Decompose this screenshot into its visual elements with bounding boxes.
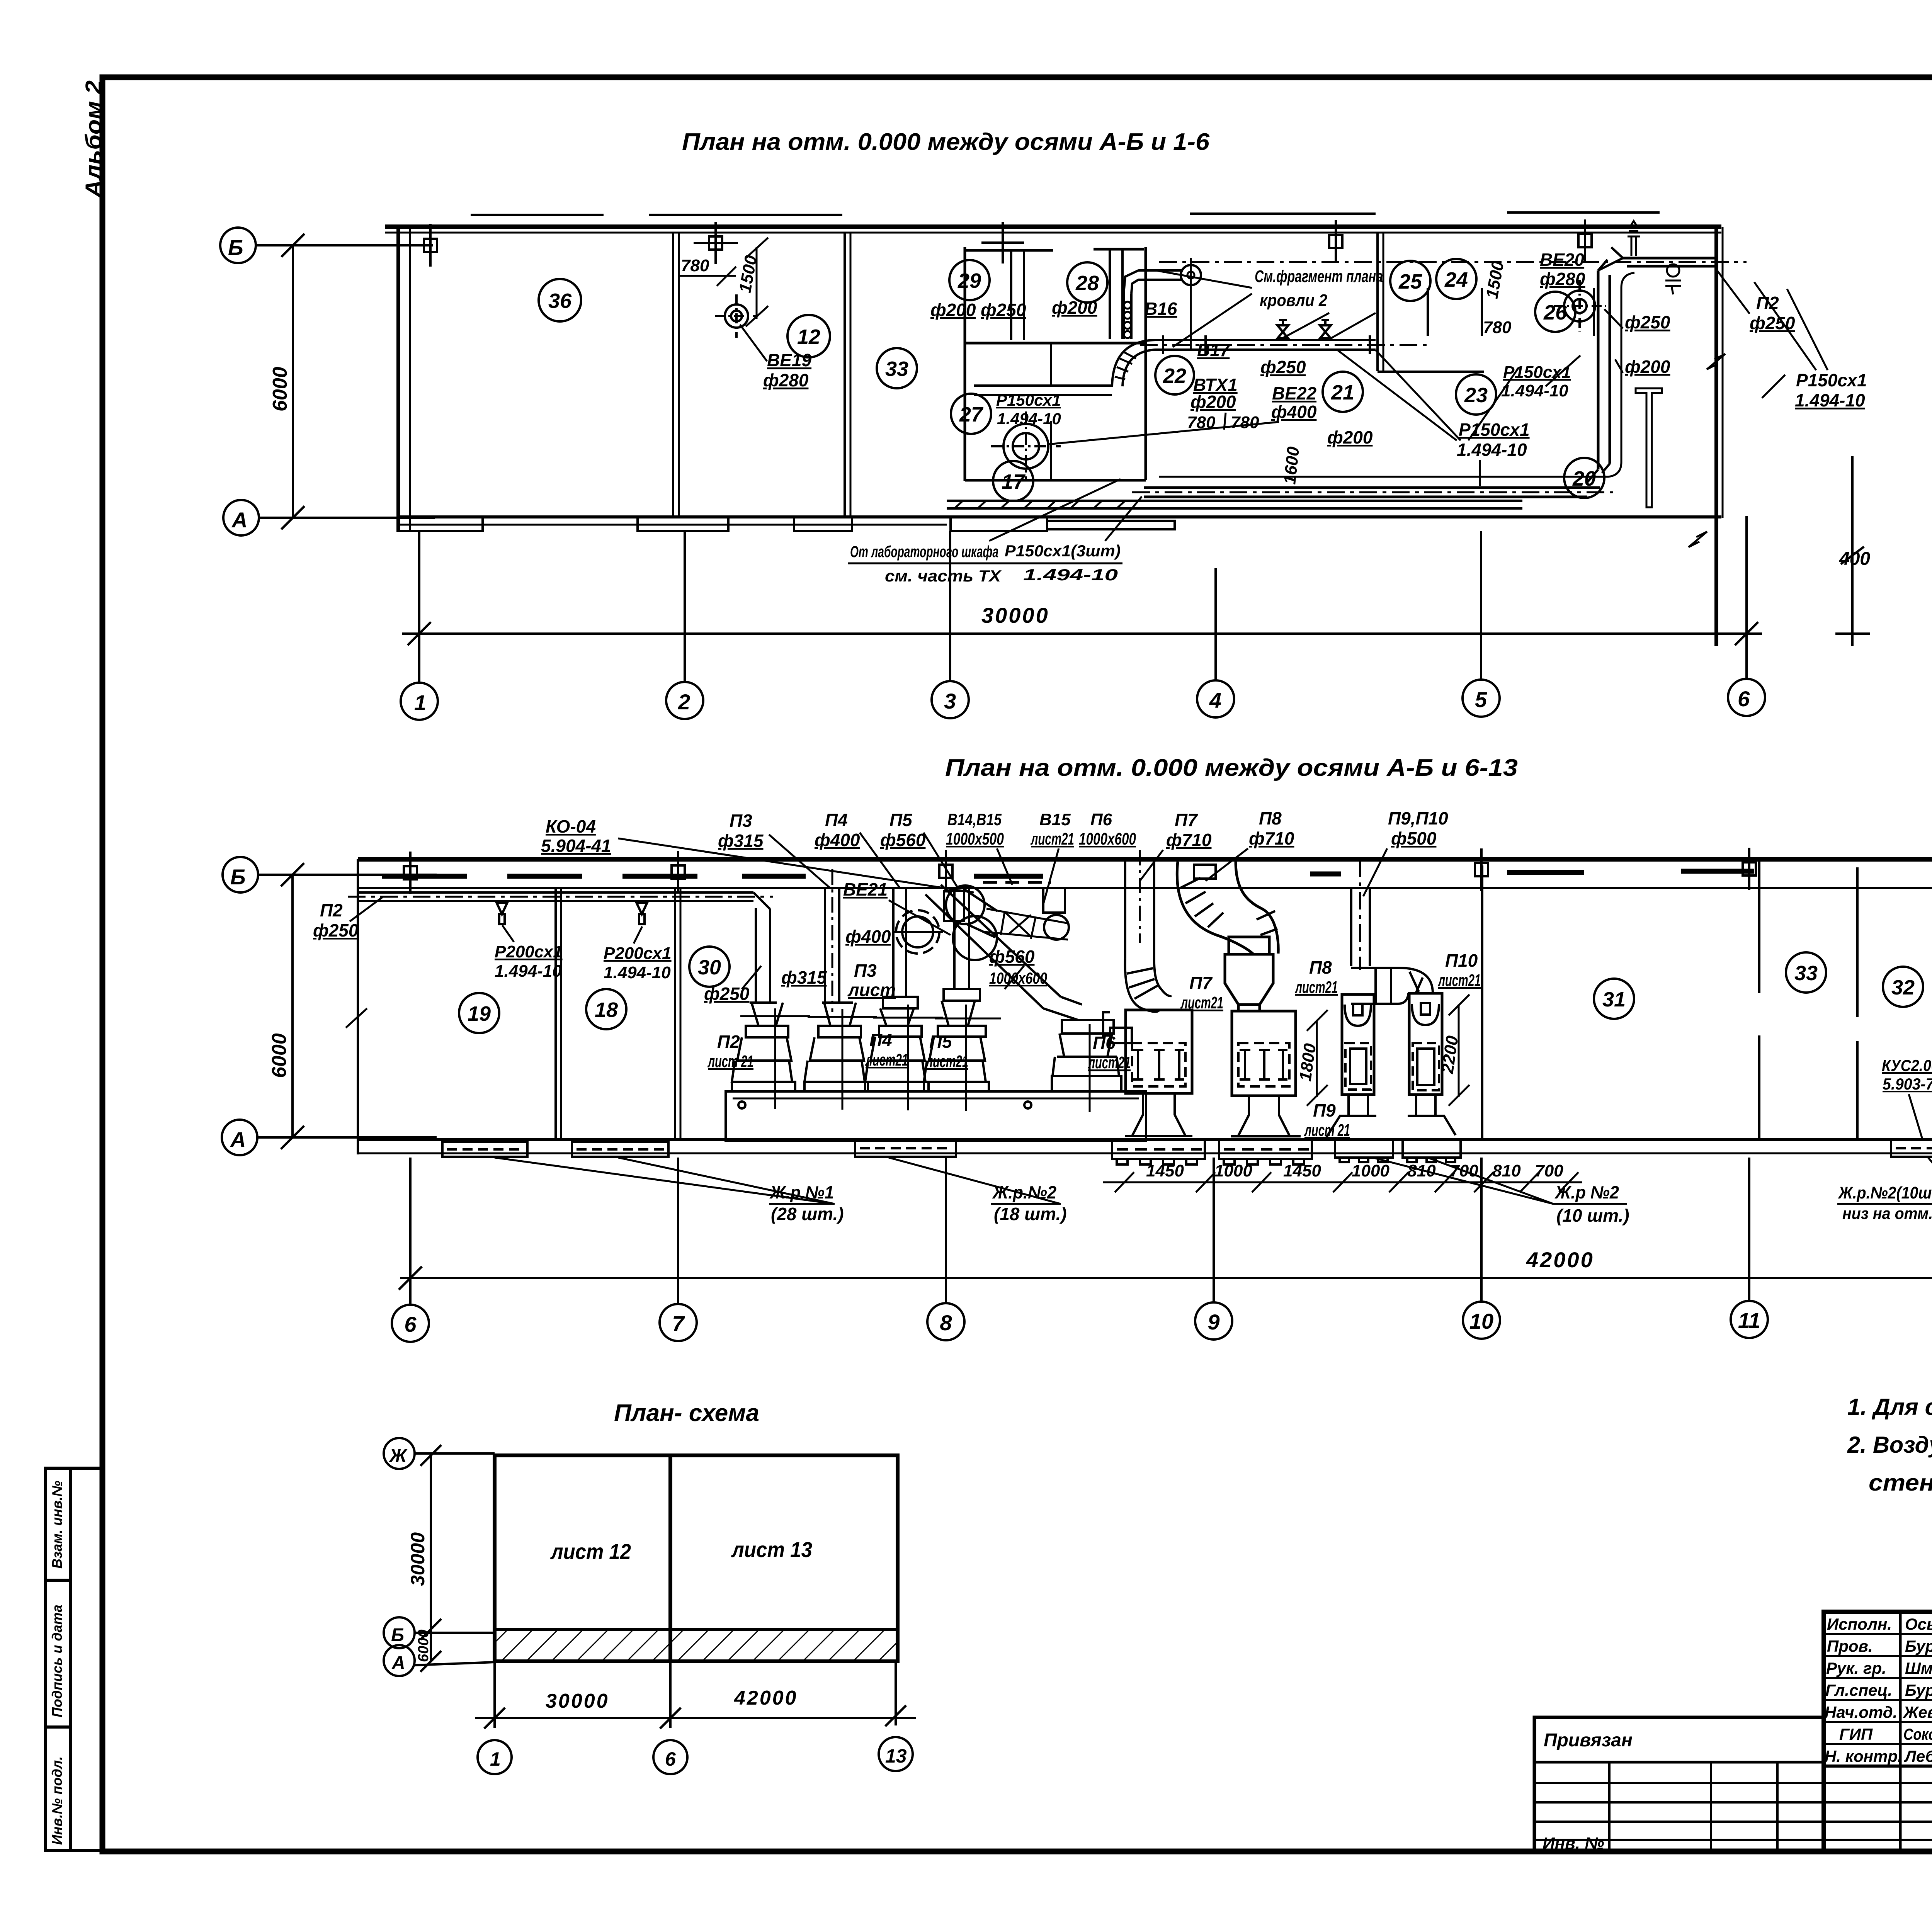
svg-text:Б: Б xyxy=(228,235,243,260)
svg-text:П6: П6 xyxy=(1093,1033,1116,1053)
P9 tower xyxy=(1342,994,1374,1095)
svg-text:П5: П5 xyxy=(929,1032,952,1052)
svg-text:стен здания.: стен здания. xyxy=(1869,1470,1932,1496)
plan1 left wall xyxy=(396,227,400,530)
svg-text:810: 810 xyxy=(1492,1161,1521,1180)
svg-text:1000х500: 1000х500 xyxy=(946,830,1004,848)
P7 box xyxy=(1126,1010,1192,1093)
svg-text:лист 21: лист 21 xyxy=(707,1052,753,1071)
svg-text:КО-04: КО-04 xyxy=(546,816,596,836)
svg-text:5: 5 xyxy=(1475,687,1487,712)
plan-schema hatched band xyxy=(497,1631,896,1660)
svg-text:ф280: ф280 xyxy=(763,370,809,390)
plan2 dim line 42000 xyxy=(399,1158,1932,1305)
svg-text:ГИП: ГИП xyxy=(1839,1725,1873,1743)
svg-text:1450: 1450 xyxy=(1283,1161,1321,1180)
svg-text:ф250: ф250 xyxy=(313,920,359,940)
svg-text:6: 6 xyxy=(1738,687,1750,711)
grid bubble А plan1 xyxy=(223,500,259,535)
grid bubble Б plan1 xyxy=(220,228,256,263)
svg-text:1.494-10: 1.494-10 xyxy=(1457,440,1527,460)
column marks plan2 top wall xyxy=(404,846,1932,894)
plan2 bottom wall xyxy=(358,1138,1932,1141)
P10 tower xyxy=(1409,993,1442,1095)
svg-text:ВЕ21: ВЕ21 xyxy=(843,879,888,899)
svg-text:ВЕ22: ВЕ22 xyxy=(1272,383,1316,403)
svg-text:6000: 6000 xyxy=(269,367,291,411)
svg-text:Альбом 2: Альбом 2 xyxy=(81,80,106,199)
svg-text:Взам. инв.№: Взам. инв.№ xyxy=(49,1481,65,1569)
svg-text:ф200: ф200 xyxy=(1327,427,1373,447)
axis lines plan2 xyxy=(258,874,437,876)
svg-text:П4: П4 xyxy=(869,1030,892,1050)
svg-text:5.903-7, 6.1: 5.903-7, 6.1 xyxy=(1883,1075,1932,1093)
svg-text:Оськина: Оськина xyxy=(1905,1615,1932,1633)
plan1 right wall xyxy=(1714,227,1718,646)
svg-text:Ж.р №2: Ж.р №2 xyxy=(1554,1182,1619,1202)
svg-text:1.494-10: 1.494-10 xyxy=(604,963,671,982)
svg-text:Бурцев: Бурцев xyxy=(1905,1637,1932,1655)
svg-text:ф200: ф200 xyxy=(1190,392,1236,412)
svg-text:780: 780 xyxy=(1231,413,1259,432)
svg-text:В14,В15: В14,В15 xyxy=(947,810,1002,829)
svg-text:П7: П7 xyxy=(1175,810,1198,830)
dim 2200 xyxy=(1449,994,1469,1106)
svg-text:11: 11 xyxy=(1738,1308,1760,1333)
svg-text:25: 25 xyxy=(1398,270,1422,293)
svg-text:Жевнеров: Жевнеров xyxy=(1903,1703,1932,1721)
svg-text:лист21: лист21 xyxy=(1295,978,1338,997)
svg-text:7: 7 xyxy=(672,1311,685,1336)
svg-text:21: 21 xyxy=(1331,381,1354,404)
svg-text:4: 4 xyxy=(1209,688,1221,712)
svg-text:От лабораторного шкафа: От лабораторного шкафа xyxy=(850,542,998,561)
svg-text:КУС2.00.00-М: КУС2.00.00-М xyxy=(1882,1056,1932,1074)
foundation pads with scallops xyxy=(1112,1140,1461,1164)
svg-text:Р150сх1: Р150сх1 xyxy=(996,391,1061,409)
svg-text:П9: П9 xyxy=(1313,1100,1336,1120)
svg-text:780: 780 xyxy=(681,256,709,275)
svg-text:Ж.р.№2(10шт.): Ж.р.№2(10шт.) xyxy=(1838,1183,1932,1202)
funnel feet under boxes xyxy=(1125,1093,1456,1137)
fan group BE21 xyxy=(893,882,1069,960)
svg-text:30000: 30000 xyxy=(546,1690,609,1712)
svg-text:Р150сх1: Р150сх1 xyxy=(1796,370,1867,390)
plan1 top wall xyxy=(385,224,1721,229)
svg-text:ф560: ф560 xyxy=(989,947,1035,967)
svg-text:6: 6 xyxy=(404,1312,417,1336)
plan1 dimension line 30000 xyxy=(402,456,1870,683)
Zh.r.1 grilles in bottom wall xyxy=(442,1140,1932,1157)
svg-text:лист21: лист21 xyxy=(925,1052,968,1071)
svg-text:Б: Б xyxy=(391,1625,404,1646)
svg-text:План- схема: План- схема xyxy=(614,1400,759,1426)
bell unit P2 xyxy=(732,1003,795,1091)
svg-text:низ на отм. 1.8: низ на отм. 1.8 xyxy=(1842,1204,1932,1222)
svg-text:Инв. №: Инв. № xyxy=(1543,1834,1604,1853)
svg-text:ф400: ф400 xyxy=(845,926,891,947)
B16 duct elbow and flex xyxy=(1124,258,1201,350)
svg-text:лист21: лист21 xyxy=(865,1051,908,1069)
svg-text:ф200: ф200 xyxy=(930,300,976,320)
svg-text:(28 шт.): (28 шт.) xyxy=(771,1204,844,1224)
svg-text:6000: 6000 xyxy=(268,1033,291,1078)
duct right vertical f250 xyxy=(1597,270,1600,469)
svg-text:13: 13 xyxy=(885,1745,907,1767)
valve symbols on P2 duct xyxy=(497,903,507,924)
bells platform plan2 xyxy=(726,1091,1146,1141)
svg-text:6000: 6000 xyxy=(415,1629,432,1662)
svg-text:ф200: ф200 xyxy=(1625,357,1670,377)
duct P2 f250 plan2 xyxy=(358,891,753,894)
svg-text:27: 27 xyxy=(959,403,984,426)
svg-text:лист21: лист21 xyxy=(1088,1053,1131,1072)
svg-text:30000: 30000 xyxy=(981,603,1049,627)
svg-text:33: 33 xyxy=(885,357,908,381)
svg-text:18: 18 xyxy=(595,998,618,1022)
left stamp column boxes xyxy=(46,1468,103,1851)
svg-text:1.494-10: 1.494-10 xyxy=(1023,566,1118,584)
P8 box xyxy=(1232,1011,1296,1096)
grid bubble Б plan2 xyxy=(223,857,258,892)
svg-text:1.494-10: 1.494-10 xyxy=(495,962,562,981)
svg-text:1450: 1450 xyxy=(1146,1161,1184,1180)
svg-text:24: 24 xyxy=(1444,268,1468,291)
svg-text:Шматкова: Шматкова xyxy=(1905,1659,1932,1677)
svg-text:Привязан: Привязан xyxy=(1544,1730,1633,1751)
svg-text:План на отм. 0.000 между осями: План на отм. 0.000 между осями А-Б и 1-6 xyxy=(682,129,1210,155)
svg-text:1.494-10: 1.494-10 xyxy=(1795,390,1865,410)
svg-text:Пров.: Пров. xyxy=(1827,1637,1873,1655)
svg-text:ф500: ф500 xyxy=(1391,828,1437,848)
svg-text:П2: П2 xyxy=(717,1032,740,1052)
schema bottom dim xyxy=(475,1661,916,1729)
P7 round riser xyxy=(1103,850,1172,1043)
svg-text:П8: П8 xyxy=(1259,808,1282,828)
dim 780 at axis2 xyxy=(679,238,768,326)
T column room20 xyxy=(1636,388,1662,507)
svg-text:ф250: ф250 xyxy=(981,300,1026,320)
svg-text:8: 8 xyxy=(940,1311,952,1335)
svg-text:Нач.отд.: Нач.отд. xyxy=(1825,1703,1897,1721)
plan1 room block walls xyxy=(965,249,1053,252)
svg-text:1000х600: 1000х600 xyxy=(1079,830,1136,848)
duct f250 horizontal room21 xyxy=(1155,339,1376,341)
svg-text:42000: 42000 xyxy=(1526,1248,1594,1272)
svg-text:П8: П8 xyxy=(1309,957,1332,977)
svg-text:5.904-41: 5.904-41 xyxy=(541,836,611,856)
svg-text:33: 33 xyxy=(1794,962,1818,985)
fan BE20 xyxy=(1554,280,1606,332)
svg-text:6: 6 xyxy=(665,1748,676,1770)
duct B17 horizontal xyxy=(974,384,1113,387)
staff labels xyxy=(1825,1615,1932,1765)
plan1 ducts xyxy=(471,212,1747,547)
P5 vertical duct xyxy=(953,888,956,989)
svg-text:см. часть ТХ: см. часть ТХ xyxy=(885,567,1002,585)
svg-text:лист21: лист21 xyxy=(1031,830,1074,848)
svg-text:Р200сх1: Р200сх1 xyxy=(495,942,563,961)
svg-text:Р200сх1: Р200сх1 xyxy=(604,944,672,963)
plan2 top wall vent slots xyxy=(382,868,1932,876)
damper on top duct xyxy=(1667,264,1679,277)
title block outer xyxy=(1534,1612,1932,1851)
vertical dim line plan2 xyxy=(291,875,294,1137)
P3 vertical duct xyxy=(824,888,826,1003)
svg-text:П7: П7 xyxy=(1189,973,1213,993)
plan1 column marks on grid B xyxy=(424,219,1592,267)
svg-text:ф400: ф400 xyxy=(1271,402,1317,422)
svg-text:Р150сх1(3шт): Р150сх1(3шт) xyxy=(1005,542,1121,560)
svg-text:30: 30 xyxy=(698,956,721,979)
svg-text:П9,П10: П9,П10 xyxy=(1388,808,1448,828)
grid bubbles 1-6 xyxy=(401,679,1765,720)
svg-text:кровли 2: кровли 2 xyxy=(1260,291,1327,310)
svg-text:22: 22 xyxy=(1163,364,1186,388)
dim 400 right side xyxy=(1851,456,1854,646)
svg-text:2. Воздуховоды, не привязанные: 2. Воздуховоды, не привязанные на плане,… xyxy=(1847,1432,1932,1458)
svg-text:ф250: ф250 xyxy=(1625,312,1670,332)
bell center axes xyxy=(740,1005,1090,1112)
svg-text:Соколовский: Соколовский xyxy=(1903,1725,1932,1743)
svg-text:Гл.спец.: Гл.спец. xyxy=(1825,1681,1892,1699)
svg-text:ф710: ф710 xyxy=(1249,828,1294,848)
svg-text:3: 3 xyxy=(944,689,956,713)
svg-text:лист 12: лист 12 xyxy=(550,1539,631,1564)
duct bottom long pair2 xyxy=(947,500,1522,502)
svg-text:ВЕ19: ВЕ19 xyxy=(767,350,811,370)
svg-text:10: 10 xyxy=(1469,1309,1493,1333)
svg-text:ф400: ф400 xyxy=(815,830,860,850)
svg-text:Бурцев: Бурцев xyxy=(1905,1681,1932,1699)
grid bubbles 6-13 xyxy=(392,1299,1932,1342)
svg-text:Исполн.: Исполн. xyxy=(1827,1615,1892,1633)
valve symbols on duct f250 xyxy=(1277,320,1288,338)
duct bottom long pair1 xyxy=(1144,486,1600,489)
svg-text:П2: П2 xyxy=(1756,293,1779,313)
svg-text:ф200: ф200 xyxy=(1052,297,1097,318)
svg-text:Подпись и дата: Подпись и дата xyxy=(49,1605,65,1717)
svg-text:А: А xyxy=(230,1127,246,1152)
svg-text:П3: П3 xyxy=(730,811,752,831)
svg-text:780: 780 xyxy=(1187,413,1216,432)
plan1 room block west wall xyxy=(964,247,966,481)
fan BE22 xyxy=(991,411,1061,481)
duct bend hatched xyxy=(1122,350,1155,386)
svg-text:Р150сх1: Р150сх1 xyxy=(1459,420,1530,440)
svg-text:17: 17 xyxy=(1002,470,1026,493)
roof overhang segments plan1 xyxy=(471,214,604,216)
svg-text:ф250: ф250 xyxy=(1260,357,1306,377)
svg-text:1.494-10: 1.494-10 xyxy=(1501,381,1568,400)
svg-text:А: А xyxy=(391,1653,405,1673)
grid bubble А plan2 xyxy=(222,1120,257,1155)
plan1 foundation pads xyxy=(398,517,483,531)
svg-text:36: 36 xyxy=(548,289,572,313)
blank rows under staff xyxy=(1534,1782,1932,1784)
svg-text:1000: 1000 xyxy=(1214,1161,1252,1180)
plan2 partitions xyxy=(554,888,557,1140)
staff rows xyxy=(1824,1633,1932,1635)
room28 duct stub xyxy=(1109,250,1111,339)
svg-text:лист 13: лист 13 xyxy=(731,1537,812,1562)
svg-text:1.494-10: 1.494-10 xyxy=(997,410,1061,428)
svg-text:ф560: ф560 xyxy=(880,830,926,850)
svg-text:1600: 1600 xyxy=(1280,445,1303,485)
svg-text:лист21: лист21 xyxy=(1438,971,1481,990)
room20 inner duct f200 rounded xyxy=(1159,273,1634,477)
svg-text:28: 28 xyxy=(1075,272,1099,295)
staff table columns xyxy=(1899,1612,1902,1851)
svg-text:А: А xyxy=(231,508,247,532)
svg-text:(18 шт.): (18 шт.) xyxy=(994,1204,1067,1224)
svg-text:1: 1 xyxy=(414,690,426,715)
P9 P10 riser xyxy=(1351,859,1433,1004)
svg-text:лист 21: лист 21 xyxy=(1304,1121,1350,1140)
svg-text:П3: П3 xyxy=(854,960,877,981)
svg-text:В16: В16 xyxy=(1145,299,1177,319)
svg-text:19: 19 xyxy=(468,1002,491,1025)
svg-text:31: 31 xyxy=(1602,988,1626,1011)
svg-text:780: 780 xyxy=(1483,318,1512,337)
grid axis Б line plan1 xyxy=(256,244,433,246)
P6 diagonal duct xyxy=(925,894,1043,1008)
plan1 room circles xyxy=(539,259,1604,501)
P8 S-duct xyxy=(1177,862,1278,954)
svg-text:П4: П4 xyxy=(825,810,848,830)
svg-text:План на отм. 0.000 между осями: План на отм. 0.000 между осями А-Б и 6-1… xyxy=(945,755,1518,781)
svg-text:ВЕ20: ВЕ20 xyxy=(1540,250,1584,270)
svg-text:В15: В15 xyxy=(1039,810,1071,829)
svg-text:Ж: Ж xyxy=(388,1446,408,1466)
svg-text:400: 400 xyxy=(1839,549,1870,569)
svg-text:лист: лист xyxy=(847,980,896,1000)
fan BE19 xyxy=(715,294,767,361)
schema bubbles 1 6 13 xyxy=(478,1740,512,1774)
plan1 partition right of axis 3 xyxy=(1376,233,1379,371)
svg-text:Б: Б xyxy=(230,865,246,889)
plan-schema rectangle xyxy=(495,1455,898,1661)
svg-text:23: 23 xyxy=(1464,384,1488,407)
schema grid bubbles xyxy=(384,1438,415,1469)
svg-text:2: 2 xyxy=(678,690,690,714)
svg-text:Инв.№ подл.: Инв.№ подл. xyxy=(49,1756,65,1845)
plan2 top wall xyxy=(358,857,1932,862)
svg-text:42000: 42000 xyxy=(734,1687,798,1709)
svg-text:9: 9 xyxy=(1207,1310,1219,1334)
bell unit P6 xyxy=(1052,1020,1121,1091)
P8 cyclone xyxy=(1225,937,1273,1011)
plan1 partition mid xyxy=(844,233,846,517)
svg-text:П2: П2 xyxy=(320,900,343,920)
left extension table xyxy=(1534,1717,1824,1851)
plan2 room circles xyxy=(459,947,1932,1033)
dim 1800 xyxy=(1307,1010,1328,1106)
svg-text:П6: П6 xyxy=(1090,810,1112,829)
duct top interior xyxy=(1623,257,1714,260)
svg-text:Лебская: Лебская xyxy=(1904,1747,1932,1765)
bubble leader lines plan1 xyxy=(418,531,420,683)
svg-text:ф710: ф710 xyxy=(1166,830,1212,850)
svg-text:1: 1 xyxy=(490,1748,501,1770)
dim row small xyxy=(1103,1172,1582,1192)
exhaust flag symbol xyxy=(1628,221,1640,256)
svg-text:ф315: ф315 xyxy=(781,967,827,988)
svg-text:лист21: лист21 xyxy=(1180,993,1223,1012)
svg-text:ф280: ф280 xyxy=(1540,269,1585,289)
svg-text:П5: П5 xyxy=(889,810,913,830)
svg-text:30000: 30000 xyxy=(407,1532,429,1586)
svg-text:29: 29 xyxy=(957,269,981,292)
svg-text:12: 12 xyxy=(797,325,820,348)
svg-text:Н. контр.: Н. контр. xyxy=(1825,1747,1902,1765)
plan1 bottom wall xyxy=(398,515,1721,518)
svg-text:П10: П10 xyxy=(1445,950,1478,971)
plan1 partition at axis 2 xyxy=(672,233,674,517)
P4 vertical duct xyxy=(892,888,895,997)
plan2 left wall xyxy=(357,859,359,1154)
svg-text:(10 шт.): (10 шт.) xyxy=(1556,1205,1629,1226)
svg-text:32: 32 xyxy=(1891,976,1915,999)
svg-text:В17: В17 xyxy=(1197,340,1231,360)
svg-text:Рук. гр.: Рук. гр. xyxy=(1826,1659,1886,1677)
plan1 wall stubs xyxy=(1427,288,1429,336)
P2 duct elbow down to bell1 xyxy=(753,892,770,909)
bell unit P4 xyxy=(865,997,929,1091)
room29 duct stub xyxy=(1010,251,1012,340)
grid axis А line plan1 xyxy=(259,517,435,519)
svg-text:1000: 1000 xyxy=(1352,1161,1389,1180)
svg-text:700: 700 xyxy=(1535,1161,1563,1180)
break marks right wall xyxy=(1689,354,1725,547)
svg-text:См.фрагмент плана: См.фрагмент плана xyxy=(1255,267,1383,286)
flanges on duct f250 xyxy=(1162,335,1164,354)
P10 elbow duct xyxy=(1351,968,1433,1004)
svg-text:ф315: ф315 xyxy=(718,831,764,851)
vertical dim 6000 line plan1 xyxy=(292,245,294,518)
bell unit P5 xyxy=(924,989,989,1091)
svg-text:1. Для систем В16, В17 вид сбо: 1. Для систем В16, В17 вид сбоку аналоги… xyxy=(1847,1394,1932,1420)
schema vertical dim xyxy=(430,1455,432,1661)
bell unit P3 xyxy=(804,1003,868,1091)
